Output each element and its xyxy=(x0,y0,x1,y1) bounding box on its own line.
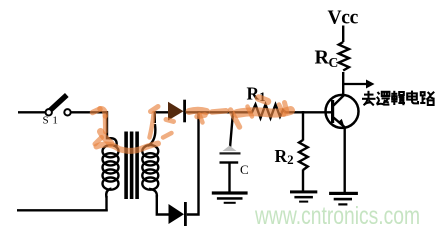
resistor RC xyxy=(339,42,349,71)
resistor R1 xyxy=(248,105,286,119)
capacitor C xyxy=(220,112,249,192)
wire: top rail D1 to R1 xyxy=(186,111,248,113)
transistor Q1 xyxy=(326,95,359,128)
label: 去逻辑电路 (to logic circuit) xyxy=(362,91,435,106)
svg-text:S 1: S 1 xyxy=(43,114,59,126)
wire: secondary top to diode D1 xyxy=(155,112,169,123)
svg-text:Vcc: Vcc xyxy=(328,8,359,29)
svg-text:C: C xyxy=(240,162,249,177)
transformer T1 core xyxy=(124,132,139,200)
wire: bottom rail up to transformer primary bottom xyxy=(105,196,107,211)
transformer T1 secondary coil xyxy=(142,124,158,198)
ground below emitter xyxy=(329,192,358,206)
svg-text:RC: RC xyxy=(315,47,339,71)
wire: corner down to transformer primary top xyxy=(107,111,111,138)
wire: switch to corner xyxy=(71,111,108,113)
diode D1 xyxy=(168,100,186,123)
wire: left top rail into switch xyxy=(18,111,46,113)
wire: R2 to ground xyxy=(302,170,304,192)
wire: output arrow xyxy=(343,80,375,89)
node: capacitor junction on rail xyxy=(232,111,234,113)
node: collector output junction xyxy=(342,83,344,85)
resistor R2 xyxy=(299,140,308,170)
char 电 xyxy=(407,91,418,104)
diode D2 xyxy=(169,202,187,226)
char 辑 xyxy=(391,91,405,105)
ground below C xyxy=(212,191,248,203)
wire: Vcc down to RC xyxy=(342,26,344,43)
wire: junction down to R2 xyxy=(302,111,304,140)
transformer T1 primary coil xyxy=(103,138,119,197)
highlight: orange marker trace over signal path xyxy=(93,98,291,151)
ground below R2 xyxy=(290,190,317,202)
switch S1 xyxy=(43,95,71,126)
char 逻 xyxy=(377,92,390,105)
node: R2 junction on rail xyxy=(302,111,304,113)
wire: collector up to arrow node xyxy=(342,72,344,96)
wire: secondary bottom down and to diode D2 xyxy=(157,195,169,215)
wire: D2 cathode up to top rail xyxy=(187,111,199,214)
char 路 xyxy=(420,92,434,105)
wire: emitter down to ground xyxy=(344,127,346,192)
svg-text:www.cntronics.com: www.cntronics.com xyxy=(254,202,420,230)
wire: bottom rail left xyxy=(17,209,108,211)
wire: R1 to base junction xyxy=(285,111,332,113)
char 去 xyxy=(362,91,376,106)
svg-text:R2: R2 xyxy=(275,146,294,167)
